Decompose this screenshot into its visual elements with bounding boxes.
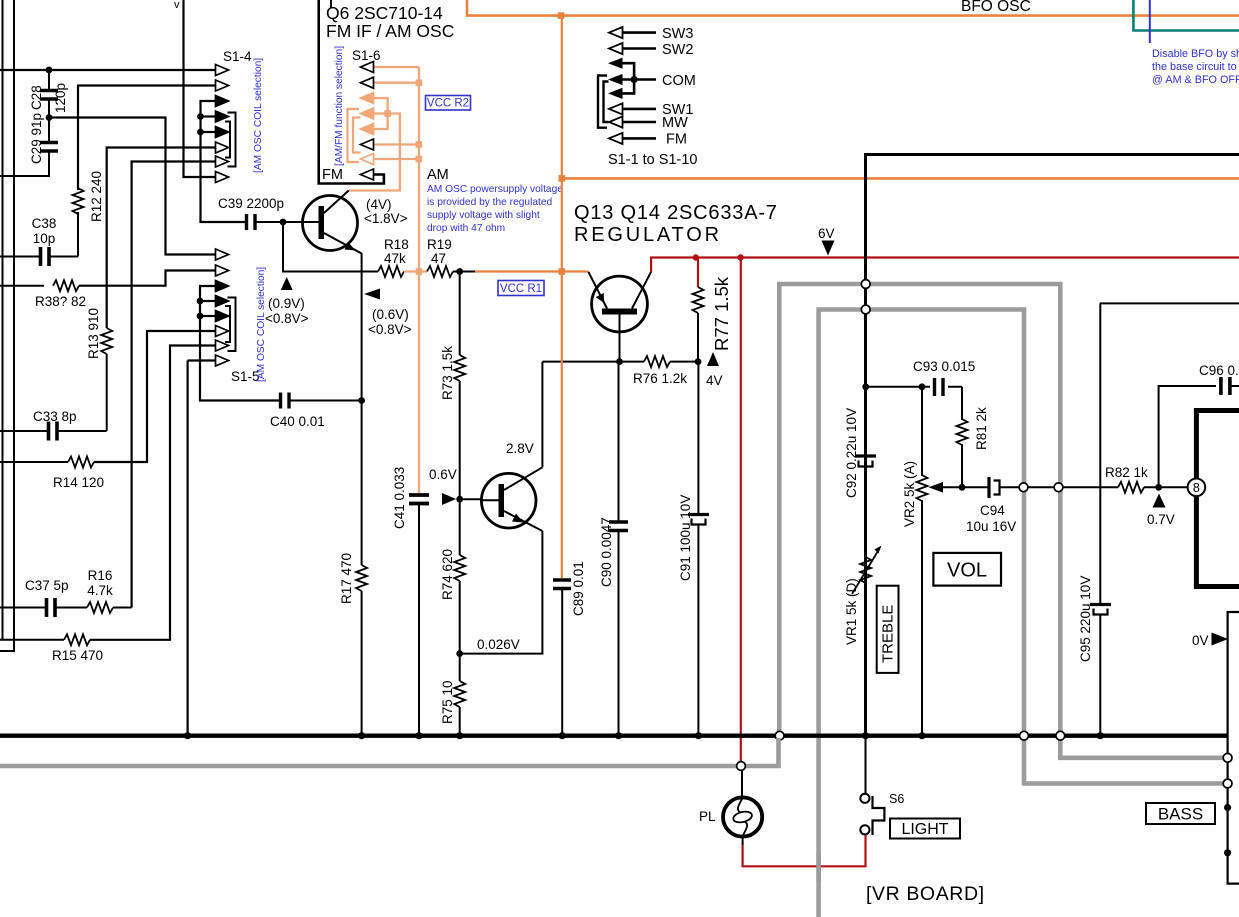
switch S1-5 wiper bracket	[228, 298, 236, 352]
capacitor C39	[247, 214, 303, 230]
bus: gray return rail	[0, 738, 779, 766]
resistor R81	[961, 387, 963, 420]
transistor Q6	[303, 191, 362, 254]
node: open node audio line x gray B	[1019, 483, 1028, 492]
svg-text:C90 0.0047: C90 0.0047	[599, 517, 614, 587]
svg-text:R82 1k: R82 1k	[1105, 465, 1148, 480]
svg-text:(4V): (4V)	[366, 197, 392, 212]
contact SW3	[609, 27, 623, 38]
node: orange dot row4	[384, 110, 391, 117]
svg-text:R12 240: R12 240	[89, 171, 104, 222]
wire: S1-6 row3 to row5 link (orange)	[373, 98, 388, 129]
capacitor C89 (orange feed)	[553, 16, 571, 735]
box: thick IC block right	[1196, 411, 1239, 587]
svg-text:<1.8V>: <1.8V>	[364, 211, 408, 226]
box VOL	[933, 553, 1001, 586]
node: dot C93 line	[862, 383, 869, 390]
wire: S1-6 row6 (orange)	[373, 143, 419, 145]
wire: Q14 collector up to R76 line	[541, 362, 543, 468]
switch S1-5 contact arrows	[216, 249, 229, 366]
wire+resistor R15: S1-5 row7 feed	[0, 639, 64, 641]
node: open node gray B crossing	[861, 305, 870, 314]
svg-text:R17 470: R17 470	[339, 553, 354, 604]
potentiometer VR1 5k(D) treble	[852, 546, 882, 595]
svg-text:<0.8V>: <0.8V>	[368, 322, 412, 337]
node: dot S1-5 row5	[197, 313, 204, 320]
svg-text:0V: 0V	[1192, 633, 1209, 648]
resistor R18	[378, 266, 404, 277]
wire: S1-5 row5 stub	[200, 315, 216, 317]
wire: orange top rail	[467, 0, 1239, 16]
svg-text:is provided by the regulated: is provided by the regulated	[427, 197, 552, 208]
resistor R76 (mask+zigzag)	[644, 354, 670, 370]
node: dot emitter return junction	[456, 650, 463, 657]
wire: orange vertical S1-6 common to C41	[418, 67, 420, 493]
svg-text:C92 0.22u 10V: C92 0.22u 10V	[844, 408, 859, 498]
svg-text:C41 0.033: C41 0.033	[392, 467, 407, 529]
svg-text:C96 0.: C96 0.	[1199, 363, 1239, 378]
node: open node gray A right x bus	[1056, 731, 1065, 740]
svg-text:C94: C94	[980, 503, 1005, 518]
capacitor C37	[0, 598, 87, 617]
svg-text:VOL: VOL	[947, 560, 987, 582]
switch S1-6 wiper bracket (orange)	[348, 109, 360, 162]
svg-text:COM: COM	[662, 73, 696, 89]
node: bus dot Q6 emitter	[358, 732, 365, 739]
wire: C93 line	[866, 386, 962, 388]
svg-text:supply voltage with slight: supply voltage with slight	[427, 210, 540, 221]
svg-text:(0.9V): (0.9V)	[268, 296, 305, 311]
wire: blue leader line	[1149, 0, 1151, 43]
box VCC R2 (blue)	[426, 96, 471, 111]
svg-text:C38: C38	[32, 216, 57, 231]
node: orange dot row2	[416, 79, 423, 86]
capacitor C29	[0, 118, 58, 177]
node: bus dot R75	[456, 732, 463, 739]
svg-text:R19: R19	[427, 237, 452, 252]
wire: top net to S1-4 row1	[0, 69, 216, 71]
node: open node outer gray at box	[1223, 779, 1232, 788]
resistor R77 (red stub + zigzag + lead)	[697, 258, 699, 288]
node: bus dot C90	[615, 732, 622, 739]
node: open node gray A crossing	[861, 280, 870, 289]
node: open node gray A left on bus	[775, 731, 784, 740]
resistor R13	[101, 328, 112, 354]
wire: S1-5 row4 stub	[200, 300, 216, 302]
node: dot S1-5 row4	[197, 298, 204, 305]
wire: Q6 emitter vertical down to bus	[361, 253, 363, 735]
wire+resistor R38: row2 of S1-5 feed	[0, 285, 44, 287]
wire: S1-6 row2 (orange)	[373, 82, 419, 84]
wire: S6 feed from bus	[865, 736, 867, 793]
svg-text:LIGHT: LIGHT	[901, 821, 948, 838]
wire+resistor R14: S1-5 row6 feed	[0, 461, 68, 463]
node: orange dot VCC R1 junction	[416, 268, 423, 275]
wire: orange segment R18-R19	[404, 270, 427, 272]
svg-text:the base circuit to GN: the base circuit to GN	[1152, 61, 1239, 73]
node: red dot R77	[693, 254, 699, 260]
wire: R19 to R73 junction	[453, 271, 475, 273]
svg-text:[AM OSC COIL selection]: [AM OSC COIL selection]	[253, 58, 264, 173]
wire: R73 chain vertical (R18 junction to Q14 base to 0.026V node to bus)	[459, 272, 461, 736]
node: bus dot S1-5 row8	[184, 732, 191, 739]
wire: S1-4 row7 to C37/R16 line	[132, 162, 216, 608]
contact filled upper	[608, 58, 623, 69]
contact filled lower	[608, 88, 623, 99]
wire: S1-6 row7 (orange)	[373, 158, 419, 160]
node: bus dot C89	[559, 732, 566, 739]
resistor R16	[87, 602, 113, 613]
wire: orange VCC rail y=178	[562, 177, 1239, 180]
wire: gray loop B inner	[819, 310, 1225, 917]
wire: S1-4 row4 stub	[201, 115, 217, 117]
node: junction C28/C29	[46, 114, 53, 121]
wire: vertical from top (v) to S1-4 row8	[184, 0, 217, 177]
node: dot on box edge 1	[1224, 804, 1231, 811]
wire: Q14 base lead	[460, 498, 482, 500]
resistor R17 (mask+zigzag)	[354, 565, 370, 591]
box TREBLE (rotated)	[877, 586, 899, 673]
svg-text:VCC R2: VCC R2	[427, 98, 469, 110]
node: dot S1-4 row5	[197, 129, 204, 136]
transistor Q13	[588, 272, 651, 362]
svg-text:S1-1 to S1-10: S1-1 to S1-10	[608, 152, 697, 168]
svg-text:REGULATOR: REGULATOR	[574, 224, 722, 246]
wire: S1-6 row1 (orange)	[373, 66, 419, 68]
svg-text:10p: 10p	[33, 231, 56, 246]
capacitor C40	[281, 393, 362, 409]
svg-text:120p: 120p	[53, 83, 68, 113]
node: orange dot row7	[416, 156, 423, 163]
marker (0.6V)	[364, 289, 380, 300]
node: bus dot C95	[1097, 732, 1104, 739]
wire: 6V feed line from top box	[866, 155, 1239, 736]
svg-text:R13 910: R13 910	[86, 308, 101, 359]
svg-text:47: 47	[431, 251, 446, 266]
node: bus dot C41	[415, 732, 422, 739]
capacitor C95 electrolytic	[1090, 303, 1239, 735]
svg-text:TREBLE: TREBLE	[880, 605, 897, 663]
bus: ground (black)	[0, 734, 1228, 738]
svg-text:BASS: BASS	[1158, 805, 1203, 824]
resistor R12	[73, 188, 84, 214]
node: dot at Q6 base	[280, 219, 287, 226]
wire: R12 bottom to C38 line	[77, 212, 79, 257]
node: orange dot rail y=178	[559, 175, 566, 182]
svg-text:drop with 47 ohm: drop with 47 ohm	[427, 223, 505, 234]
capacitor C94 electrolytic	[962, 477, 1118, 498]
node: bus dot VR2	[918, 732, 925, 739]
svg-text:SW3: SW3	[662, 26, 693, 42]
svg-text:FM IF / AM OSC: FM IF / AM OSC	[326, 21, 454, 41]
node: dot Q13 base line	[616, 358, 623, 365]
node: dot Q14 base	[456, 496, 463, 503]
svg-text:10u 16V: 10u 16V	[966, 519, 1016, 534]
svg-text:S1-4: S1-4	[223, 49, 252, 64]
node: bus dot C91	[695, 732, 702, 739]
box VCC R1 (blue)	[498, 281, 544, 296]
wire: teal BFO rail	[1133, 0, 1239, 31]
marker 4V	[707, 352, 719, 366]
node: junction at C28 top	[46, 67, 53, 74]
node: dot C96 tap	[1155, 484, 1162, 491]
svg-text:AM OSC powersupply voltage: AM OSC powersupply voltage	[427, 184, 563, 195]
svg-text:R16: R16	[88, 568, 113, 583]
wire: S1-4 row5 stub	[201, 131, 217, 133]
svg-text:R74 620: R74 620	[440, 549, 455, 600]
svg-text:C89 0.01: C89 0.01	[571, 561, 586, 616]
svg-text:C33 8p: C33 8p	[33, 409, 77, 424]
wire: Q6 block boundary / FM switch return	[319, 0, 384, 184]
svg-text:4V: 4V	[706, 373, 723, 388]
contact FM	[609, 133, 623, 144]
wire: Q14 emitter down and back to 0.026V node	[460, 531, 543, 654]
marker (0.9V)	[281, 277, 293, 290]
capacitor C91 electrolytic	[688, 362, 709, 735]
wire: R76 line (Q14 collector to R77 bottom)	[542, 361, 698, 363]
svg-text:FM: FM	[666, 132, 687, 148]
node: dot S1-4 row4	[197, 113, 204, 120]
capacitor C96	[1159, 377, 1239, 487]
wire: gray loop B overdraw at red crossing	[816, 852, 821, 882]
svg-text:[VR BOARD]: [VR BOARD]	[866, 883, 985, 905]
svg-text:Disable BFO by shun: Disable BFO by shun	[1152, 48, 1239, 60]
node: red dot lamp feed	[737, 254, 743, 260]
wire: gray loop A outer	[779, 284, 1225, 758]
svg-text:4.7k: 4.7k	[87, 583, 113, 598]
node: dot R76/R77	[695, 358, 702, 365]
svg-text:R73 1.5k: R73 1.5k	[440, 346, 455, 400]
wire: main vertical x=865.7 (C92/VR1 chain)	[865, 387, 867, 456]
contact COM	[608, 74, 623, 85]
svg-text:C93 0.015: C93 0.015	[913, 359, 975, 374]
capacitor C28	[40, 70, 58, 118]
capacitor C92 electrolytic	[855, 456, 876, 467]
capacitor C90	[609, 362, 628, 735]
svg-text:6V: 6V	[818, 226, 835, 241]
wire: S1-5 rows 3-5 common down to C40	[200, 286, 280, 401]
svg-text:0.026V: 0.026V	[477, 637, 520, 652]
wire: S1-5 row8 down to ground bus	[187, 361, 189, 736]
svg-text:Q6 2SC710-14: Q6 2SC710-14	[326, 3, 443, 23]
resistor R19	[427, 266, 453, 277]
wire: C28/C29 junction to S1-5 row1 riser	[49, 118, 216, 255]
switch S1-4 wiper bracket	[228, 113, 236, 167]
svg-text:@ AM & BFO OFF: @ AM & BFO OFF	[1152, 74, 1239, 86]
transistor Q14	[481, 467, 542, 531]
wire: red lamp return to S6	[743, 835, 866, 866]
marker 0.7V	[1153, 494, 1166, 508]
svg-text:MW: MW	[662, 115, 688, 131]
note: Disable BFO (blue)	[1152, 48, 1239, 86]
svg-text:R14 120: R14 120	[53, 475, 104, 490]
svg-text:2.8V: 2.8V	[506, 441, 534, 456]
svg-text:AM: AM	[427, 167, 449, 183]
svg-text:R75 10: R75 10	[440, 680, 455, 724]
wire: S1-4 row2 with riser at x=78	[78, 86, 216, 191]
node: open node audio line x gray A	[1054, 483, 1063, 492]
note: AM OSC powersupply (blue)	[427, 184, 563, 234]
svg-text:C39 2200p: C39 2200p	[218, 196, 284, 211]
potentiometer VR2 5k(A)	[917, 387, 963, 735]
svg-text:C91 100u 10V: C91 100u 10V	[678, 495, 693, 581]
capacitor C38	[0, 247, 78, 266]
lamp PL	[723, 771, 762, 846]
svg-text:R77 1.5k: R77 1.5k	[711, 276, 732, 351]
svg-text:8: 8	[1193, 481, 1200, 495]
svg-text:VR1 5k (D): VR1 5k (D)	[844, 578, 859, 645]
wiper bracket S1 block	[598, 76, 607, 128]
node: dot wiper/R81/C94	[959, 484, 966, 491]
resistor R82	[1118, 482, 1144, 493]
wire: cut stub above Q6	[330, 0, 332, 8]
wire: Q6 base junction down to R18 line	[283, 222, 378, 272]
svg-text:R81 2k: R81 2k	[974, 407, 989, 450]
node: bus dot main vertical	[862, 732, 869, 739]
svg-text:BFO OSC: BFO OSC	[961, 0, 1031, 15]
wire: S1-6 row4 (orange) to collector drop	[349, 114, 400, 191]
node: orange dot row6	[416, 141, 423, 148]
resistor R73 (mask+zigzag)	[452, 355, 468, 381]
svg-text:R76 1.2k: R76 1.2k	[633, 371, 687, 386]
wire: orange VCC R1 line to Q13 emitter	[475, 270, 588, 272]
box BASS	[1146, 803, 1215, 824]
wire: left edge vertical 2 (turns left at bottom)	[0, 0, 14, 651]
capacitor C41	[409, 495, 429, 735]
svg-text:47k: 47k	[384, 251, 406, 266]
node: open node gray B right x bus	[1020, 731, 1029, 740]
svg-text:PL: PL	[699, 809, 716, 824]
svg-text:S6: S6	[889, 792, 904, 806]
svg-text:VCC R1: VCC R1	[500, 283, 542, 295]
svg-text:R18: R18	[384, 237, 409, 252]
svg-text:0.6V: 0.6V	[429, 467, 457, 482]
switch S1-6 contact arrows	[361, 62, 374, 181]
wire: R13 bottom to C33	[106, 354, 108, 431]
switch S6	[860, 794, 884, 835]
svg-text:[AM/FM function selection]: [AM/FM function selection]	[334, 46, 345, 166]
wire: S1-4 rows 3-5 common to C39	[201, 101, 247, 222]
box LIGHT	[890, 819, 960, 839]
svg-text:R15 470: R15 470	[52, 648, 103, 663]
contact SW2	[609, 43, 623, 54]
resistor R75 (mask+zigzag)	[452, 681, 468, 707]
node: orange dot top rail	[558, 12, 565, 19]
node: orange dot at x=561.8	[559, 268, 566, 275]
svg-text:C37 5p: C37 5p	[25, 578, 69, 593]
switch S1-4 contact arrows	[216, 65, 229, 183]
svg-text:Q13 Q14 2SC633A-7: Q13 Q14 2SC633A-7	[574, 202, 778, 224]
switch S1-1 to S1-10 block	[598, 26, 697, 168]
svg-text:C28: C28	[29, 85, 44, 110]
svg-text:(0.6V): (0.6V)	[372, 307, 409, 322]
svg-text:<0.8V>: <0.8V>	[265, 311, 309, 326]
svg-text:0.7V: 0.7V	[1147, 512, 1175, 527]
wire: dark red collector rail	[651, 258, 1239, 273]
pin 8 circle	[1188, 479, 1206, 497]
svg-text:FM: FM	[322, 167, 343, 183]
svg-text:C40 0.01: C40 0.01	[270, 414, 325, 429]
capacitor C33	[0, 422, 107, 441]
wire: left edge vertical 1	[2, 0, 4, 640]
svg-text:SW2: SW2	[662, 42, 693, 58]
node: open node lamp feed on gray bus	[737, 762, 746, 771]
svg-text:R38? 82: R38? 82	[35, 294, 86, 309]
node: dot emitter/C40	[358, 397, 365, 404]
wire: red lamp feed vertical	[740, 258, 742, 763]
svg-text:C95 220u 10V: C95 220u 10V	[1078, 576, 1093, 662]
box: thin block bottom right	[1228, 612, 1239, 884]
svg-text:v: v	[174, 0, 180, 11]
contact SW1	[609, 103, 623, 114]
capacitor C93	[930, 378, 948, 396]
svg-text:S1-6: S1-6	[352, 48, 381, 63]
node: dot on box edge 2	[1224, 849, 1231, 856]
svg-text:C29 91p: C29 91p	[29, 113, 44, 164]
svg-text:VR2 5k (A): VR2 5k (A)	[902, 461, 917, 527]
node: open node inner gray at box	[1223, 753, 1232, 762]
contact MW	[609, 116, 623, 127]
resistor R74 (mask+zigzag)	[452, 555, 468, 581]
wire: S1-4 row6 to R13 top	[107, 148, 216, 329]
node: dot R19/R73	[456, 268, 463, 275]
node: dot VR2 top	[919, 383, 926, 390]
